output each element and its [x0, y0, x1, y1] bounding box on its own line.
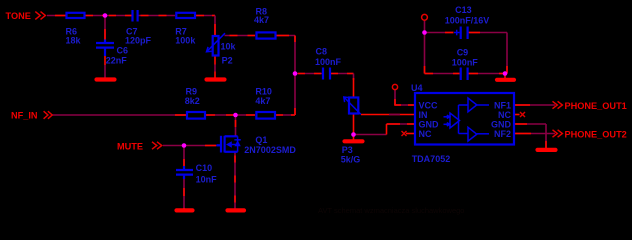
resistor R7 [176, 13, 195, 18]
wire R6 to node A [85, 15, 105, 17]
ground P3 [345, 139, 363, 143]
wire NC left stub [406, 133, 414, 135]
ground C10 [177, 208, 193, 212]
wire C6 to ground [104, 56, 106, 66]
svg-text:P3: P3 [342, 145, 353, 155]
svg-text:MUTE: MUTE [117, 142, 143, 152]
node E [182, 143, 187, 148]
svg-text:10nF: 10nF [196, 174, 218, 184]
chevron PHONE_OUT1 [553, 101, 563, 108]
svg-text:C6: C6 [117, 46, 129, 56]
wire NF1 to PHONE_OUT1 [515, 104, 555, 106]
svg-text:100nF: 100nF [452, 57, 479, 67]
wire corner down to ground [545, 124, 547, 148]
svg-text:5k/G: 5k/G [341, 154, 361, 164]
capacitor C10 [176, 166, 193, 179]
wire P2 wiper to R8 [225, 35, 256, 37]
U4 top amplifier [468, 98, 489, 112]
svg-text:22nF: 22nF [106, 56, 128, 66]
ground U4 right [538, 148, 556, 152]
wire VCC terminal to VCC pin [394, 90, 396, 106]
node F [422, 30, 427, 35]
svg-text:NF1: NF1 [494, 100, 511, 110]
wire jog to GND pin [387, 123, 415, 125]
wire R7 to corner [196, 15, 215, 17]
svg-text:AVT schemat wzmacniacza sl: AVT schemat wzmacniacza sluchawkowego [318, 206, 464, 215]
potentiometer P3 [344, 97, 361, 114]
wire node F to C13 [425, 32, 454, 34]
wire right rail down [506, 33, 508, 74]
svg-text:U4: U4 [411, 83, 423, 93]
svg-text:PHONE_OUT2: PHONE_OUT2 [565, 130, 627, 140]
wire TONE to R6 [47, 15, 66, 17]
resistor R10 [256, 112, 275, 119]
svg-text:TDA7052: TDA7052 [412, 154, 451, 164]
wire corner down to P2 top [214, 16, 216, 36]
wire node A to C7 [105, 15, 132, 17]
ground Q1 [228, 208, 245, 212]
wire Q1 source to ground [234, 153, 236, 210]
svg-text:4k7: 4k7 [254, 15, 269, 25]
svg-text:P2: P2 [222, 56, 233, 66]
svg-text:NC: NC [419, 129, 432, 139]
capacitor C6 [96, 40, 114, 57]
ground C9 [497, 78, 514, 82]
chevron TONE [35, 12, 45, 20]
node B [293, 71, 298, 76]
capacitor C8 [323, 68, 330, 80]
wire node D down to Q1 drain [235, 115, 237, 136]
wire vertical bus x295 [294, 36, 296, 116]
wire node C to GND pin jog [354, 134, 387, 136]
svg-text:100k: 100k [175, 36, 196, 46]
resistor R8 [257, 32, 276, 38]
ground C6 [97, 77, 115, 81]
wire C13 to right rail [469, 32, 508, 34]
capacitor C13 [454, 27, 468, 40]
resistor R9 [187, 112, 205, 119]
resistor R6 [67, 13, 85, 18]
U4 input buffer [444, 105, 468, 134]
potentiometer P2 [207, 33, 226, 55]
svg-text:100nF/16V: 100nF/16V [445, 16, 490, 26]
wire C10 to ground [183, 178, 185, 209]
chevron NF_IN [44, 111, 53, 119]
chevron PHONE_OUT2 [553, 130, 563, 137]
wire node G to ground [504, 74, 506, 79]
wire left rail down [424, 33, 426, 74]
svg-text:Q1: Q1 [255, 135, 267, 145]
svg-text:C10: C10 [196, 163, 213, 173]
node A [103, 13, 108, 18]
op-amp U1 IC box TDA7052 [415, 93, 514, 145]
svg-text:8k2: 8k2 [185, 96, 200, 106]
svg-text:C13: C13 [455, 5, 472, 15]
wire NF_IN to R9 [52, 114, 186, 116]
node G [503, 71, 508, 76]
svg-text:C9: C9 [457, 47, 469, 57]
wire node E down to C10 [183, 146, 185, 167]
svg-text:GND: GND [491, 119, 512, 129]
svg-text:PHONE_OUT1: PHONE_OUT1 [565, 101, 627, 111]
svg-text:TONE: TONE [6, 11, 31, 21]
node D [233, 113, 238, 118]
wire NC right stub [515, 114, 520, 116]
no-connect X right NC [520, 112, 525, 117]
wire C7 to R7 [139, 15, 176, 17]
svg-text:100nF: 100nF [315, 57, 342, 67]
ground P2 [207, 77, 225, 81]
U4 bottom amplifier [468, 127, 489, 141]
svg-text:4k7: 4k7 [255, 96, 270, 106]
no-connect X left NC [402, 131, 407, 136]
chevron MUTE [152, 142, 162, 149]
svg-text:2N7002SMD: 2N7002SMD [244, 145, 296, 155]
wire R8 to corner [277, 35, 296, 37]
wire R9 to R10 [206, 114, 255, 116]
capacitor C7 [133, 10, 138, 22]
wire C8 to corner [331, 73, 354, 75]
svg-text:VCC: VCC [419, 100, 439, 110]
wire MUTE to Q1 gate [163, 145, 220, 147]
wire P2 bottom to ground [214, 57, 216, 65]
VCC terminal top [422, 14, 428, 20]
wire P3 wiper to IN pin [361, 114, 414, 116]
svg-text:NF_IN: NF_IN [11, 111, 38, 121]
svg-text:IN: IN [419, 110, 428, 120]
node C [351, 132, 356, 137]
wire supply circle to node F [424, 20, 426, 32]
wire node B to C8 [295, 73, 322, 75]
svg-text:120pF: 120pF [125, 36, 152, 46]
svg-text:18k: 18k [66, 36, 82, 46]
svg-text:NF2: NF2 [494, 129, 511, 139]
capacitor C9 [461, 68, 468, 81]
wire C9 to node G [469, 73, 506, 75]
svg-text:NC: NC [498, 110, 511, 120]
wire P3 bottom to node C [353, 115, 355, 140]
wire left rail to C9 [425, 73, 460, 75]
wire node A down to C6 [104, 16, 106, 41]
wire R10 to corner [276, 114, 295, 116]
wire NF2 to PHONE_OUT2 [515, 133, 555, 135]
svg-text:10k: 10k [221, 41, 237, 51]
wire corner down to P3 top [353, 74, 355, 81]
wire jog vertical [386, 124, 388, 135]
VCC terminal near U4 [392, 84, 397, 89]
svg-text:GND: GND [419, 119, 440, 129]
svg-text:C8: C8 [316, 47, 328, 57]
wire GND right to corner [515, 123, 546, 125]
transistor Q1 [217, 136, 241, 153]
